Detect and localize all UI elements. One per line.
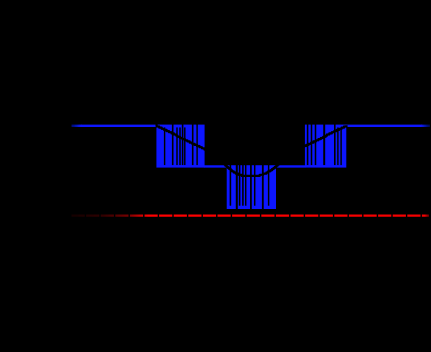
wire: top-level flat line right [346, 125, 422, 127]
wire: top-level flat line left [81, 125, 157, 127]
wire: gap lines in block 2 [230, 165, 268, 210]
node: modulating reference curve (black, visible over blue) [156, 125, 347, 176]
wire: top-level flat line, left segment (fade-in end) [72, 125, 83, 127]
node: red dashed reference line [72, 215, 430, 217]
node: PWM block 2 (mid-to-bottom switching region) [227, 165, 276, 209]
wire: gap lines in block 1 [165, 124, 198, 165]
wire: mid-level flat line between block 1 and block 2 [204, 165, 228, 167]
wire: mid-level flat line between block 2 and block 3 [275, 165, 305, 167]
wire: gap lines in block 3 [308, 124, 342, 165]
node: PWM block 3 (mid-to-top switching region) [305, 125, 346, 168]
wire: top-level flat line, right segment (fade-out end) [421, 125, 430, 127]
node: PWM block 1 (top-to-mid switching region) [156, 125, 204, 168]
